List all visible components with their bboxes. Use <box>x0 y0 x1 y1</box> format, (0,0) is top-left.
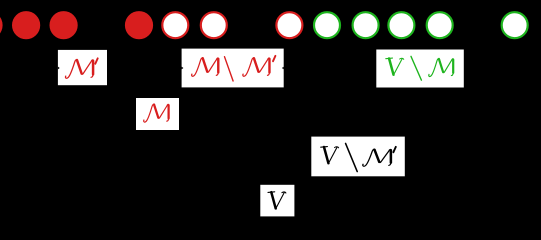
label text V\M : backslash <box>411 56 421 80</box>
arrow tip at M\M' box right edge <box>282 67 284 70</box>
label box M' <box>58 50 107 85</box>
vertex circle 11 set V minus M <box>502 12 528 38</box>
vertex dot 3 set M' <box>125 11 153 39</box>
vertex dot (partial, left edge) set M' <box>0 11 3 39</box>
label text M\M' : second M <box>243 58 270 76</box>
label box M <box>136 98 179 130</box>
vertex circle 8 set V minus M <box>353 12 379 38</box>
label text M\M' : first M <box>192 58 219 76</box>
label text V\M' : prime <box>393 147 395 152</box>
label text M\M' : backslash <box>225 57 234 81</box>
label box M\M' <box>182 49 284 88</box>
label text V\M : V <box>386 58 404 75</box>
label text M' : M <box>66 60 94 79</box>
label box V\M' <box>311 137 405 177</box>
label text V <box>268 192 286 209</box>
vertex circle 6 set M minus M' <box>276 12 302 38</box>
label text M\M' : prime <box>273 56 275 61</box>
label text V\M' : V <box>321 147 339 164</box>
vertex circle 7 set V minus M <box>314 12 340 38</box>
arrow tip at M' box left edge <box>58 67 60 70</box>
vertex circle 4 set M minus M' <box>162 12 188 38</box>
label box V\M <box>376 50 464 88</box>
vertex dot 1 set M' <box>12 11 40 39</box>
label box V <box>260 185 294 217</box>
label text M' : prime <box>95 58 97 63</box>
label text V\M' : backslash <box>346 144 358 172</box>
label text V\M : M <box>429 59 454 77</box>
vertex dot 2 set M' <box>50 11 78 39</box>
label text M <box>144 104 169 122</box>
label text V\M' : M <box>363 149 391 166</box>
vertex circle 9 set V minus M <box>388 12 414 38</box>
vertex circle 10 set V minus M <box>427 12 453 38</box>
arrow tip at M\M' box left edge <box>182 67 184 70</box>
vertex circle 5 set M minus M' <box>201 12 227 38</box>
